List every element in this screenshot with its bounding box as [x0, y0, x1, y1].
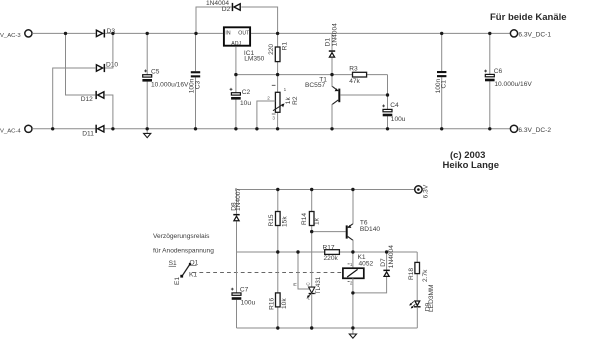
wire R14 to TL431 cathode	[311, 232, 313, 288]
svg-text:für Anodenspannung: für Anodenspannung	[153, 248, 214, 255]
svg-text:10u: 10u	[240, 100, 251, 107]
svg-text:ADJ: ADJ	[231, 41, 241, 47]
wire ADJ horizontal line	[236, 74, 332, 76]
potentiometer R2	[267, 75, 299, 129]
diode D2	[206, 0, 240, 13]
wire D12 branch	[66, 33, 96, 95]
resistor R16	[268, 252, 288, 328]
svg-text:TL431: TL431	[315, 276, 322, 294]
wire ADJ pin down	[235, 47, 237, 75]
resistor R1	[268, 33, 288, 74]
wire mid rail	[237, 251, 325, 253]
wire top rail left	[32, 32, 95, 34]
svg-text:6.3V_AC-4: 6.3V_AC-4	[0, 129, 21, 135]
svg-text:R2: R2	[292, 96, 299, 105]
svg-text:C1: C1	[441, 80, 448, 89]
svg-text:15k: 15k	[282, 216, 289, 227]
wire bottom rail left	[32, 128, 95, 130]
diode D10	[96, 62, 118, 73]
svg-text:2: 2	[267, 96, 270, 101]
wire top rail LM350 OUT to terminal	[251, 32, 510, 34]
svg-text:6.3V_DC-2: 6.3V_DC-2	[518, 127, 551, 134]
wire bottom rail right of D11	[105, 128, 510, 130]
diode D3	[96, 28, 115, 38]
relay coil K1	[343, 252, 374, 293]
svg-text:10.000u/16V: 10.000u/16V	[494, 81, 532, 88]
svg-text:BC557: BC557	[305, 82, 325, 89]
svg-text:220: 220	[268, 44, 275, 55]
LED D9	[409, 285, 435, 328]
svg-text:2.7k: 2.7k	[422, 269, 429, 282]
svg-text:D11: D11	[82, 131, 94, 138]
svg-text:IN: IN	[225, 31, 230, 37]
node dots bottom rail	[51, 127, 491, 130]
op-amp regulator IC1 LM350	[224, 27, 265, 62]
svg-text:1N4004: 1N4004	[388, 245, 395, 268]
resistor R3	[332, 66, 388, 85]
svg-text:100u: 100u	[241, 300, 256, 307]
svg-text:4052: 4052	[359, 260, 374, 267]
svg-text:D12: D12	[81, 96, 93, 103]
svg-text:10k: 10k	[281, 298, 288, 309]
svg-text:R14: R14	[301, 213, 308, 225]
svg-text:Verzögerungsrelais: Verzögerungsrelais	[153, 233, 210, 240]
capacitor C3	[189, 33, 202, 128]
svg-text:LED3MM: LED3MM	[428, 285, 435, 312]
svg-text:47k: 47k	[349, 78, 360, 85]
svg-text:2: 2	[350, 280, 353, 285]
node dots ADJ line	[234, 73, 389, 97]
svg-text:1: 1	[284, 87, 287, 92]
svg-text:E1: E1	[174, 277, 181, 285]
terminal DC output 1	[510, 30, 551, 39]
wire TL431 ref	[298, 252, 309, 289]
svg-text:Heiko Lange: Heiko Lange	[443, 160, 500, 171]
svg-text:D2: D2	[222, 6, 231, 13]
svg-text:3: 3	[272, 116, 275, 121]
dashed link S1 to relay K1	[193, 272, 343, 274]
transistor T6 BD140	[346, 190, 381, 253]
svg-text:BD140: BD140	[360, 226, 380, 233]
wire D10 cathode riser	[105, 33, 113, 68]
svg-text:C7: C7	[240, 286, 249, 293]
wire D10 branch	[53, 68, 96, 129]
wire top rail (bottom circuit)	[237, 189, 415, 191]
svg-text:LM350: LM350	[244, 56, 264, 63]
svg-text:1N4007: 1N4007	[235, 188, 242, 211]
switch S1 contact	[169, 259, 199, 285]
wire R3 to T1 base node	[387, 75, 389, 95]
terminal X2 AC input 2	[0, 125, 32, 134]
shunt regulator TL431	[293, 276, 322, 300]
svg-text:R17: R17	[323, 245, 335, 252]
svg-text:OUT: OUT	[238, 31, 250, 37]
svg-text:C3: C3	[195, 80, 202, 89]
svg-text:C2: C2	[242, 89, 251, 96]
svg-text:C5: C5	[151, 68, 160, 75]
svg-text:1N4004: 1N4004	[332, 23, 339, 46]
svg-text:C6: C6	[494, 68, 503, 75]
svg-text:6.3V_AC-3: 6.3V_AC-3	[0, 33, 21, 39]
resistor R15	[268, 190, 289, 253]
ground (top circuit)	[144, 129, 151, 138]
node dots top rail	[64, 32, 492, 35]
capacitor C6	[484, 33, 532, 128]
capacitor C5	[142, 33, 189, 128]
wire R2 wiper	[257, 101, 276, 129]
diode D7	[353, 245, 395, 293]
diode D2 bypass loop wires	[196, 7, 232, 33]
svg-text:R15: R15	[268, 214, 275, 226]
diode D8	[230, 188, 242, 252]
resistor R14	[301, 190, 320, 232]
svg-text:R3: R3	[349, 66, 358, 73]
capacitor C2	[230, 75, 252, 129]
svg-text:D7: D7	[380, 258, 387, 267]
svg-text:220k: 220k	[324, 255, 339, 262]
svg-text:D1: D1	[324, 38, 331, 47]
resistor R17	[323, 245, 340, 262]
diode D11	[82, 125, 104, 138]
wire T6 base	[312, 231, 346, 233]
svg-text:1k: 1k	[314, 217, 321, 225]
terminal 6.3V supply	[415, 184, 430, 198]
svg-text:R1: R1	[281, 42, 288, 51]
svg-text:100u: 100u	[391, 116, 406, 123]
wire TL431 anode down	[311, 294, 313, 329]
wire relay to ground rail	[352, 293, 354, 328]
diode D12	[81, 91, 104, 103]
svg-text:C4: C4	[390, 102, 399, 109]
wire ground rail (bottom circuit)	[237, 327, 418, 329]
terminal DC output 2	[510, 125, 551, 134]
svg-text:10.000u/16V: 10.000u/16V	[151, 81, 189, 88]
resistor R18	[408, 252, 429, 300]
ground (bottom circuit)	[349, 328, 356, 338]
svg-text:Für beide Kanäle: Für beide Kanäle	[490, 12, 567, 23]
terminal X1 AC input 1	[0, 30, 32, 39]
svg-text:6.3V: 6.3V	[423, 184, 430, 198]
wire D12 anode riser	[105, 95, 113, 129]
svg-text:1: 1	[350, 262, 353, 267]
wire top rail D3 to LM350	[105, 32, 223, 34]
capacitor C1	[435, 33, 448, 128]
diode D1	[324, 23, 338, 75]
svg-text:R16: R16	[268, 297, 275, 309]
capacitor C4	[382, 95, 406, 129]
svg-text:6.3V_DC-1: 6.3V_DC-1	[518, 32, 551, 39]
transistor T1 BC557	[305, 75, 388, 129]
svg-text:R18: R18	[408, 268, 415, 280]
node dots (bottom circuit)	[276, 188, 388, 330]
capacitor C7	[231, 252, 256, 328]
